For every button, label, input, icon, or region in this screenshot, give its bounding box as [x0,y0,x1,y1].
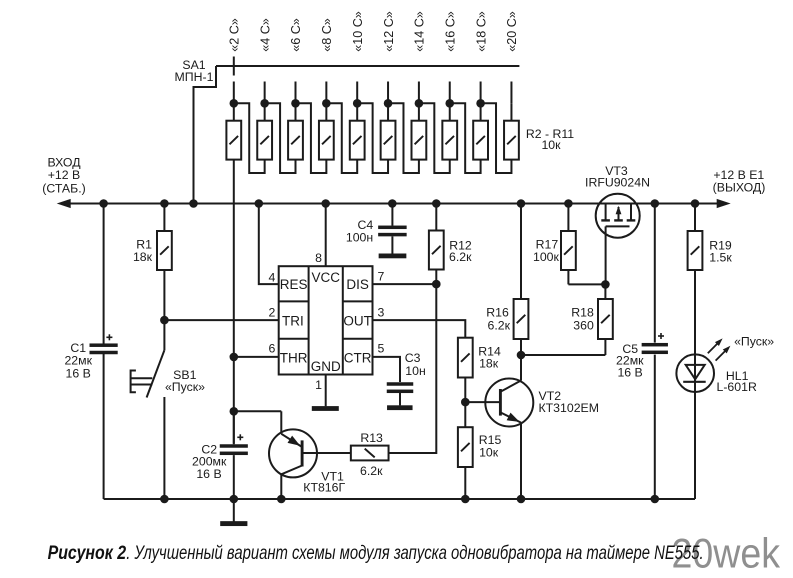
svg-text:«20 С»: «20 С» [505,11,519,52]
ground (main) [220,521,247,526]
op-amp U1 (555 timer box) [279,266,373,374]
svg-text:«14 С»: «14 С» [413,11,427,52]
svg-text:4: 4 [269,271,276,285]
node: rail junction at R17 [564,199,573,208]
svg-text:КТ816Г: КТ816Г [303,481,345,495]
svg-text:(ВЫХОД): (ВЫХОД) [713,181,766,195]
capacitor C4 [378,204,407,254]
svg-text:«18 С»: «18 С» [474,11,488,52]
node: rail junction at C1 [99,199,108,208]
svg-text:16 В: 16 В [617,366,642,380]
svg-text:THR: THR [280,350,308,365]
svg-text:«2 С»: «2 С» [228,18,242,52]
resistor R15 [458,402,473,499]
label SB1 «Пуск» [165,368,205,394]
svg-text:МПН-1: МПН-1 [175,70,214,84]
value label R2 - R11 10к [526,127,574,152]
node: THR junction [230,353,239,362]
svg-text:GND: GND [311,359,341,374]
node label «8 С» (switch position 4) [320,18,334,52]
value label R15 10к [479,433,502,460]
wire: pin 3 OUT to R14 [373,320,466,338]
node: rail junction at R19 [691,199,700,208]
transistor VT3 [596,194,640,285]
value label C2 200мк 16 В [192,442,227,481]
node: DIS junction [432,280,441,289]
wire: pin 6 THR [234,356,279,358]
svg-text:R18: R18 [571,306,594,320]
wire: +12V rail [64,203,719,205]
resistor R9 (R2-R11 array) [442,103,457,159]
node: tap junction 1 [230,99,239,108]
wire: series link R9 top to R10 bottom [450,103,481,173]
svg-text:(СТАБ.): (СТАБ.) [42,182,85,196]
node: rail junction at R12 [432,199,441,208]
node label ВХОД +12 В (СТАБ.) [42,156,85,196]
wire: pin 5 CTR to C3 [373,357,401,382]
value label C3 10н [405,351,426,378]
wire: series link R6 top to R7 bottom [357,103,388,173]
node label «14 С» (switch position 7) [413,11,427,52]
transistor VT2 [465,355,533,499]
wire: pin 1 GND lead [325,375,327,407]
svg-text:«8 С»: «8 С» [320,18,334,52]
node: VT1 emitter junction [230,407,239,416]
svg-text:18к: 18к [479,357,499,371]
wire: series link R8 top to R9 bottom [419,103,450,173]
node: ground rail junction at C2 [230,495,239,504]
capacitor C2 [220,411,248,499]
switch SA1 common bus wire [216,65,519,67]
svg-text:R15: R15 [479,433,502,447]
resistor R14 [458,338,473,402]
wire: series link R10 top to R11 bottom [481,103,512,173]
resistor R6 (R2-R11 array) [350,103,365,159]
resistor R18 [598,284,613,355]
pushbutton SB1 [131,320,165,499]
node: rail junction at R1 [160,199,169,208]
caption Рисунок 2 [48,543,704,564]
svg-text:7: 7 [378,270,385,284]
value label R19 1.5к [709,238,732,264]
value label R17 100к [533,237,560,264]
resistor R8 (R2-R11 array) [412,103,427,159]
wire: pin 8 VCC to rail [325,204,327,267]
svg-text:R16: R16 [486,306,509,320]
wire: switch contact stub 5 [356,82,358,104]
pin 5 label [378,342,385,356]
value label R12 6.2к [449,238,472,263]
svg-text:C3: C3 [405,351,421,365]
resistor R19 [688,204,703,355]
label HL1 L-601R [717,369,757,394]
node: TRI junction [160,316,169,325]
value label R16 6.2к [486,306,510,333]
node: VT2 base junction [461,398,470,407]
capacitor C5 [642,204,668,500]
svg-text:6.2к: 6.2к [449,250,472,264]
resistor R7 (R2-R11 array) [381,103,396,159]
svg-text:3: 3 [378,306,385,320]
label VT2 КТ3102ЕМ [539,389,599,415]
wire: switch contact stub 6 [387,82,389,104]
svg-text:100н: 100н [346,231,373,245]
resistor R11 (R2-R11 array) [504,103,519,159]
resistor R4 (R2-R11 array) [288,103,303,159]
svg-text:1.5к: 1.5к [709,250,732,264]
node: rail junction at C4 [388,199,397,208]
svg-text:18к: 18к [133,250,153,264]
switch SA1 wiper contact («2 С» position) [233,57,235,76]
wire: switch contact stub 7 [418,82,420,104]
label VT3 IRFU9024N [585,164,650,190]
watermark 20wek [672,530,781,577]
resistor R3 (R2-R11 array) [257,103,272,159]
resistor R10 (R2-R11 array) [473,103,488,159]
node: tap junction 2 [260,99,269,108]
svg-text:1: 1 [315,378,322,392]
wire: switch contact stub 3 [295,82,297,104]
wire: switch contact stub 10 [510,82,512,104]
node label «12 С» (switch position 6) [382,11,396,52]
output arrow (ВЫХОД) [717,199,731,208]
node label «20 С» (switch position 10) [505,11,519,52]
capacitor C3 [387,382,414,405]
wire: series link R3 top to R4 bottom [265,103,296,173]
label VT1 КТ816Г [303,469,345,494]
svg-text:L-601R: L-601R [717,380,757,394]
svg-text:5: 5 [378,342,385,356]
svg-text:«10 С»: «10 С» [351,11,365,52]
wire: switch contact stub 1 [233,82,235,104]
wire: pin 4 RES to rail [259,204,279,285]
svg-text:«12 С»: «12 С» [382,11,396,52]
svg-text:«16 С»: «16 С» [443,11,457,52]
wire: THR node down to C2 node [233,357,235,411]
wire: ground rail [104,498,695,500]
svg-text:TRI: TRI [282,313,304,328]
node: tap junction 5 [353,99,362,108]
wire: switch contact stub 8 [449,82,451,104]
svg-text:«Пуск»: «Пуск» [734,335,774,349]
wire: DIS node down to R13 [389,284,437,453]
svg-text:100к: 100к [533,250,560,264]
wire: R13 to VT1 base [303,452,351,454]
resistor R2 (R2-R11 array) [226,103,241,159]
value label R18 360 [571,306,594,333]
svg-text:360: 360 [573,318,594,332]
wire: series link R5 top to R6 bottom [326,103,357,173]
value label R1 18к [133,238,153,264]
svg-text:КТ3102ЕМ: КТ3102ЕМ [539,401,599,415]
node: tap junction 3 [291,99,300,108]
node: rail junction at VCC pin [321,199,330,208]
svg-text:. Улучшенный вариант схемы мод: . Улучшенный вариант схемы модуля запуск… [126,543,704,564]
node label «4 С» (switch position 2) [258,18,272,52]
wire: pin 7 DIS to R12 [373,283,437,285]
svg-text:R13: R13 [360,431,383,445]
wire: series link R2 top to R3 bottom [234,103,265,173]
label «Пуск» (LED) [734,335,774,349]
node: tap junction 9 [476,99,485,108]
node label «18 С» (switch position 9) [474,11,488,52]
node label «10 С» (switch position 5) [351,11,365,52]
node: ground rail junction at VT1 collector [277,495,286,504]
node: rail junction at RES pin [254,199,263,208]
wire SA1 bus to +12V rail [194,66,217,204]
wire: R18 bottom to collector node [521,354,605,356]
svg-text:«6 С»: «6 С» [289,18,303,52]
pin 3 label [378,306,385,320]
pin 2 label [269,306,276,320]
svg-text:2: 2 [269,306,276,320]
pin 8 label [315,251,322,265]
svg-text:IRFU9024N: IRFU9024N [585,175,650,189]
capacitor C1 [90,204,118,500]
node: R16/R18/VT2 collector junction [517,351,526,360]
resistor R17 [561,204,576,285]
node: ground rail junction at VT2 emitter [517,495,526,504]
svg-text:«Пуск»: «Пуск» [165,380,205,394]
value label C5 22мк 16 В [616,342,644,380]
wire: junction to C2 top [233,411,235,443]
resistor R16 [514,204,529,356]
node: tap junction 8 [445,99,454,108]
svg-text:RES: RES [280,277,308,292]
node: rail junction at C5 [651,199,660,208]
svg-text:6.2к: 6.2к [488,318,511,332]
svg-text:CTR: CTR [344,350,372,365]
value label C1 22мк 16 В [64,341,92,380]
node: tap junction 7 [415,99,424,108]
input arrow (ВХОД) [57,199,71,208]
svg-text:+12 В: +12 В [48,168,80,182]
pin 6 label [269,342,276,356]
wire: switch contact stub 4 [325,82,327,104]
wire: switch contact stub 9 [480,82,482,104]
svg-text:8: 8 [315,251,322,265]
value label R13 6.2к [360,431,383,478]
ground (C4) [379,254,407,259]
wire: ground rail to ground symbol [233,499,235,522]
svg-text:VCC: VCC [311,270,340,285]
node label «2 С» (switch position 1) [228,18,242,52]
wire: switch contact stub 2 [264,82,266,104]
resistor R1 [157,204,172,320]
svg-text:Рисунок 2: Рисунок 2 [48,543,127,564]
svg-text:10к: 10к [479,446,499,460]
wire: R2 bottom to THR node (crosses rail and TRI wire) [233,160,235,357]
LED emission arrows [708,338,731,360]
wire: R17 bottom to gate node [568,283,605,285]
node: tap junction 4 [322,99,331,108]
svg-text:6: 6 [269,342,276,356]
node: ground rail junction at R15 [461,495,470,504]
node: ground rail junction at SB1 [160,495,169,504]
node: rail junction at R16 [517,199,526,208]
svg-text:OUT: OUT [343,313,372,328]
node label «6 С» (switch position 3) [289,18,303,52]
ground (pin 1) [312,406,339,411]
svg-text:10н: 10н [405,364,425,378]
resistor R13 [351,446,389,461]
ground (C3) [387,405,413,410]
svg-text:DIS: DIS [346,277,369,292]
resistor R5 (R2-R11 array) [319,103,334,159]
wire: pin 2 TRI to R1/SB1 node [164,319,278,321]
node: rail junction at SA1 [189,199,198,208]
node label +12 В Е1 (ВЫХОД) [713,168,766,195]
wire: series link R4 top to R5 bottom [296,103,327,173]
node: tap junction 6 [384,99,393,108]
svg-text:16 В: 16 В [66,366,91,380]
node: ground rail junction at C5 [651,495,660,504]
wire: series link R7 top to R8 bottom [388,103,419,173]
node label «16 С» (switch position 8) [443,11,457,52]
node: gate junction [601,280,610,289]
pin 1 label [315,378,322,392]
resistor R12 [429,204,444,285]
switch SA1 label [175,58,214,84]
LED HL1 [676,354,714,499]
value label R14 18к [478,344,501,370]
transistor VT1 [234,411,317,499]
pin 7 label [378,270,385,284]
svg-text:6.2к: 6.2к [360,464,383,478]
svg-text:«4 С»: «4 С» [258,18,272,52]
pin 4 label [269,271,276,285]
svg-text:10к: 10к [541,138,561,152]
svg-text:16 В: 16 В [196,467,221,481]
value label C4 100н [346,218,373,245]
